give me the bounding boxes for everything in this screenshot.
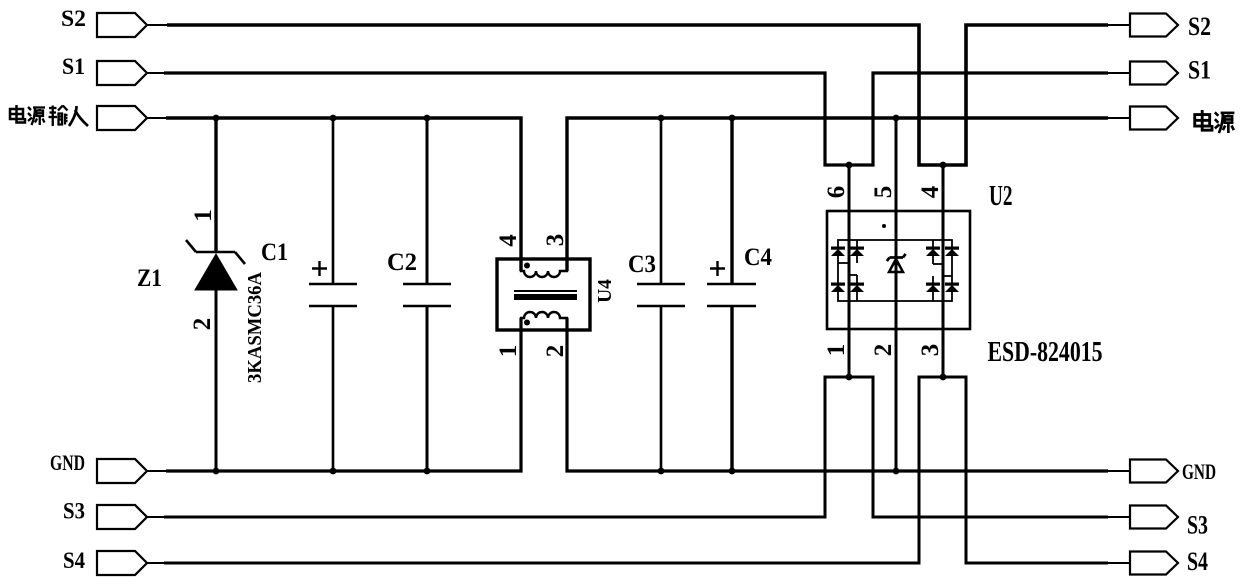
svg-text:C1: C1 <box>261 239 288 266</box>
svg-text:ESD-824015: ESD-824015 <box>988 337 1103 368</box>
svg-text:2: 2 <box>870 344 897 357</box>
svg-text:C4: C4 <box>744 244 772 271</box>
svg-text:S4: S4 <box>63 548 85 574</box>
svg-text:2: 2 <box>542 345 569 358</box>
svg-text:U2: U2 <box>989 181 1013 212</box>
svg-text:U4: U4 <box>595 279 616 303</box>
svg-text:S1: S1 <box>1188 56 1211 85</box>
svg-text:4: 4 <box>917 185 944 198</box>
svg-text:C2: C2 <box>387 249 417 276</box>
svg-text:6: 6 <box>823 186 850 199</box>
svg-text:5: 5 <box>870 186 897 199</box>
svg-text:1: 1 <box>823 344 850 357</box>
svg-text:1: 1 <box>495 345 522 358</box>
svg-text:S2: S2 <box>61 6 86 32</box>
svg-text:S4: S4 <box>1187 547 1208 576</box>
svg-text:3: 3 <box>542 234 569 247</box>
svg-text:S2: S2 <box>1188 12 1211 41</box>
svg-text:GND: GND <box>50 450 85 475</box>
svg-text:Z1: Z1 <box>137 265 162 292</box>
svg-text:4: 4 <box>495 234 522 247</box>
svg-text:S3: S3 <box>63 499 85 525</box>
svg-text:S1: S1 <box>62 54 85 80</box>
svg-text:S3: S3 <box>1187 511 1208 540</box>
svg-text:3KASMC36A: 3KASMC36A <box>244 271 266 383</box>
svg-text:GND: GND <box>1182 459 1216 484</box>
svg-text:1: 1 <box>190 209 217 222</box>
svg-text:2: 2 <box>189 318 216 331</box>
svg-text:3: 3 <box>917 344 944 357</box>
svg-text:C3: C3 <box>628 251 656 278</box>
